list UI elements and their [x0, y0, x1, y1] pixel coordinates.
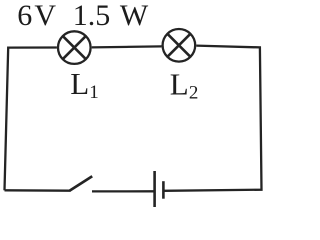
wire: between switch contact and battery long plate: [92, 190, 155, 192]
battery cell: long (positive) plate: [153, 171, 156, 207]
label L2: [170, 66, 199, 103]
svg-text:1.5: 1.5: [73, 0, 111, 32]
label L1: [70, 66, 99, 103]
wire: between L1 and L2: [92, 46, 162, 47]
lamp L1 (circle with X): [58, 31, 91, 64]
svg-text:L: L: [170, 66, 189, 101]
svg-text:1: 1: [89, 82, 99, 103]
switch: open lever blade: [70, 176, 93, 191]
svg-text:2: 2: [189, 82, 199, 103]
svg-text:L: L: [70, 66, 89, 101]
wire: bottom-left segment from corner to switch pivot: [5, 189, 71, 192]
svg-text:6: 6: [17, 0, 32, 32]
wire: top-right horizontal + right vertical + bottom-right run to battery: [163, 46, 261, 191]
wire: left vertical + top-left horizontal segment: [5, 48, 57, 191]
label: lamp rating "6 V 1.5 W": [17, 0, 149, 32]
svg-text:W: W: [120, 0, 149, 32]
lamp L2 (circle with X): [163, 29, 196, 62]
svg-text:V: V: [34, 0, 56, 32]
battery cell: short (negative) plate: [162, 181, 165, 199]
